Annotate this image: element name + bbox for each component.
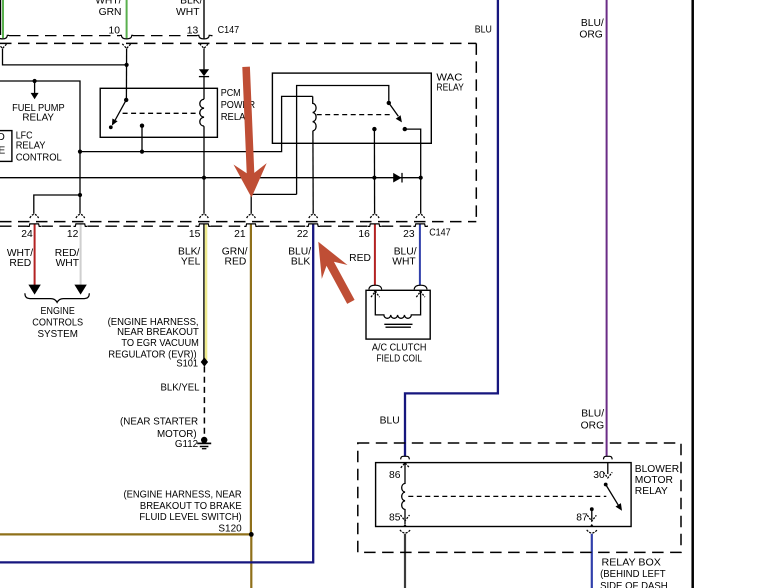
splice S120 node: [249, 532, 254, 537]
svg-text:BLU/: BLU/: [581, 18, 604, 29]
blower motor relay dashed boundary box: [358, 443, 681, 552]
connector arch pin 24: [30, 214, 39, 218]
wire black to pin 12: [79, 195, 81, 214]
svg-text:S101: S101: [176, 359, 198, 370]
svg-text:10: 10: [109, 26, 121, 37]
WAC relay switch closed contact node: [403, 127, 407, 131]
wire black WAC to pin 21: [251, 194, 296, 213]
LFC control box partial: [0, 131, 12, 162]
label FUEL PUMP RELAY: [12, 103, 65, 124]
svg-text:BREAKOUT TO BRAKE: BREAKOUT TO BRAKE: [140, 501, 242, 512]
pin chevron below top connector pin 13: [200, 44, 209, 49]
svg-text:C147: C147: [218, 25, 240, 36]
svg-text:YEL: YEL: [181, 257, 201, 268]
svg-text:12: 12: [67, 229, 79, 240]
wire BLK/WHT pin 13 (dark gray): [203, 0, 205, 38]
wire BLK/YEL pin 15 (black with yellow stripe): [204, 224, 206, 360]
wire BLK/YEL dashed splice S101 to ground G112: [203, 367, 205, 438]
label GRN/RED: [222, 246, 248, 267]
A/C coil connector dome left: [369, 285, 382, 289]
svg-text:RELAY: RELAY: [16, 141, 46, 152]
blower pin 87 cup below box: [587, 530, 597, 533]
connector cup pin 13: [197, 35, 210, 39]
wire BLU long vertical right of PCM box: [405, 0, 498, 456]
blower pin 86 chevron: [401, 463, 409, 468]
A/C coil pin chevron left: [371, 291, 380, 297]
connector cup pin 10: [120, 35, 133, 39]
svg-text:FIELD COIL: FIELD COIL: [376, 353, 422, 364]
svg-text:RED: RED: [225, 257, 247, 268]
WAC relay coil: [313, 96, 316, 130]
svg-text:FLUID LEVEL SWITCH): FLUID LEVEL SWITCH): [139, 512, 241, 523]
svg-text:RELAY: RELAY: [635, 486, 668, 497]
svg-text:(NEAR STARTER: (NEAR STARTER: [120, 417, 198, 428]
engine controls arrow right (RED/WHT): [74, 285, 86, 295]
label PCM POWER RELAY: [221, 88, 255, 123]
svg-text:PCM: PCM: [221, 88, 241, 99]
wire GRN/RED below S120 to bottom edge: [250, 534, 252, 588]
connector arch pin 16: [370, 214, 379, 218]
WAC relay open contact node: [372, 127, 376, 131]
svg-text:(ENGINE HARNESS, NEAR: (ENGINE HARNESS, NEAR: [124, 490, 242, 501]
wire WHT/GRN pin 10 (green): [126, 0, 128, 38]
wire GRN/RED horizontal into S120 from left edge: [0, 533, 251, 535]
connector arch pin 12: [76, 214, 85, 218]
connector cup pin at left edge wire: [0, 35, 9, 39]
connector C147 top row: dashed line with cups: [9, 35, 213, 37]
blower pin 30 chevron pointing down: [603, 463, 612, 478]
label brake fluid switch note: [124, 490, 242, 523]
wire RED pin 16 to A/C clutch field coil: [374, 224, 376, 285]
wire black vertical far right: [691, 0, 694, 588]
connector bump pin 23: [413, 224, 427, 227]
connector C147 bottom row second dashed line with bumps: [0, 225, 428, 227]
fuel pump relay feed wire horizontal: [0, 81, 80, 195]
PCM component boundary dashed right edge: [475, 43, 477, 221]
svg-text:15: 15: [189, 229, 201, 240]
wire black WAC contact to pin 23 via bus2 node: [405, 129, 421, 214]
label A/C CLUTCH FIELD COIL: [372, 342, 427, 364]
blower relay coil: [402, 464, 405, 521]
node junction x80 bus1: [78, 150, 82, 154]
wire RED/WHT pin 12 (light gray): [80, 224, 82, 286]
wire WHT/GRN left edge (green, top left): [1, 0, 3, 38]
WAC relay switch arm with arrowhead: [389, 103, 402, 123]
label BLK/YEL: [178, 246, 201, 267]
PCM power relay switch pivot: [124, 98, 128, 102]
WAC relay box: [272, 73, 431, 143]
connector bump pin 16: [368, 224, 382, 227]
svg-text:E: E: [0, 146, 5, 157]
svg-text:TO EGR VACUUM: TO EGR VACUUM: [121, 338, 199, 349]
svg-text:G112: G112: [175, 439, 198, 450]
connector arch pin 22: [309, 214, 318, 218]
label BLU/WHT pin23: [392, 246, 416, 267]
blower pin 86 cup bracket: [401, 456, 410, 459]
svg-text:(BEHIND LEFT: (BEHIND LEFT: [600, 569, 666, 580]
svg-text:GRN: GRN: [99, 7, 122, 18]
svg-text:BLU: BLU: [380, 415, 400, 426]
svg-text:CONTROL: CONTROL: [16, 153, 62, 164]
wire black from left pin down and right to pin10 node: [3, 48, 127, 65]
svg-text:RED: RED: [9, 258, 31, 269]
blower relay dashed actuator link: [408, 495, 606, 497]
PCM power relay box: [100, 88, 217, 137]
svg-text:RELAY: RELAY: [436, 83, 463, 94]
svg-text:CONTROLS: CONTROLS: [32, 317, 83, 328]
PCM power relay switch arm with arrowhead: [112, 100, 126, 126]
svg-text:BLK/YEL: BLK/YEL: [161, 383, 200, 394]
PCM component boundary dashed bottom edge (connector line): [0, 221, 476, 223]
node bus2 / WAC open contact branch: [372, 176, 376, 180]
WAC relay switch pivot: [387, 101, 391, 105]
label BLU/ORG top right: [579, 18, 604, 40]
node junction pin13 wire / bus2: [202, 176, 206, 180]
blower pin 87 node: [590, 507, 594, 511]
wire BLU/BLK pin 22 (navy) down and left to edge: [0, 224, 313, 562]
wire black PCM coil down through bus to pin 15: [203, 126, 205, 214]
A/C clutch coil core bars: [384, 324, 412, 327]
A/C coil connector dome right: [414, 285, 427, 289]
wire BLU/WHT pin 23 to A/C clutch field coil: [419, 224, 421, 285]
PCM power relay output contact node and stub to bus1: [140, 124, 144, 154]
wire BLU/WHT below blower relay pin 87: [591, 534, 593, 588]
blower switch arm with arrowhead: [606, 485, 622, 511]
svg-text:BLU/: BLU/: [581, 409, 604, 420]
svg-text:RELAY BOX: RELAY BOX: [602, 558, 662, 569]
svg-text:D: D: [0, 132, 5, 143]
label BLK/WHT pin13: [176, 0, 203, 18]
connector bump pin 22: [306, 224, 320, 227]
blower pin 87 stem and chevron: [587, 509, 596, 526]
diode D2 on bus2: [393, 173, 402, 183]
bus2 wire y178 from left edge: [0, 177, 421, 179]
node bus2 end / pin23 branch: [419, 176, 423, 180]
svg-text:ORG: ORG: [581, 421, 604, 432]
svg-text:30: 30: [593, 470, 605, 481]
wire black diode to PCM relay coil and down to pin 15: [203, 77, 205, 100]
connector bump pin 12: [74, 224, 88, 227]
A/C coil pin chevron right: [416, 291, 425, 297]
svg-text:22: 22: [297, 229, 309, 240]
wire GRN/RED pin 21 (dark gold) to S120: [250, 224, 252, 534]
A/C clutch coil winding: [375, 293, 420, 319]
svg-text:S120: S120: [218, 523, 242, 534]
PCM component boundary dashed top edge: [0, 42, 476, 44]
connector arch pin 23: [416, 214, 425, 218]
svg-text:WHT: WHT: [56, 258, 80, 269]
svg-text:MOTOR: MOTOR: [635, 475, 673, 486]
arrow into fuel pump relay: [31, 81, 39, 99]
blower motor relay box: [376, 463, 631, 527]
svg-text:NEAR BREAKOUT: NEAR BREAKOUT: [117, 327, 199, 338]
wire black pin 10 down into PCM power relay switch: [125, 48, 127, 100]
blower pin 85 chevron: [401, 515, 410, 526]
svg-text:BLU: BLU: [475, 24, 492, 35]
node junction fuel pump relay tap: [33, 79, 37, 83]
svg-text:23: 23: [403, 229, 415, 240]
svg-text:WHT: WHT: [176, 7, 200, 18]
WAC relay dashed actuator link: [317, 114, 390, 116]
blower pin 30 cup bracket: [604, 456, 613, 459]
svg-text:ENGINE: ENGINE: [41, 306, 75, 317]
blower pin 85 cup below box: [400, 530, 410, 533]
connector bump pin 21: [244, 224, 258, 227]
svg-text:A/C CLUTCH: A/C CLUTCH: [372, 342, 427, 353]
label LFC RELAY CONTROL: [16, 130, 62, 163]
svg-text:86: 86: [389, 470, 401, 481]
svg-text:BLK: BLK: [291, 257, 311, 268]
WAC relay switch feed wire: [297, 86, 389, 195]
svg-text:SYSTEM: SYSTEM: [38, 329, 78, 340]
connector arch pin 21: [247, 214, 256, 218]
svg-text:87: 87: [576, 512, 588, 523]
svg-text:24: 24: [21, 229, 33, 240]
label BLU/ORG mid: [581, 409, 605, 432]
node junction pin10 wire / left wire: [125, 63, 129, 67]
diode D1 on pin 13 wire: [199, 69, 209, 76]
red arrow 1 pointing down at pin 21 wire: [234, 67, 267, 198]
connector bump pin 15: [197, 224, 211, 227]
svg-text:ORG: ORG: [579, 30, 602, 41]
wire black pin 13 down to diode: [203, 48, 205, 69]
svg-text:16: 16: [358, 229, 370, 240]
svg-text:RED: RED: [349, 253, 371, 264]
label ENGINE CONTROLS SYSTEM: [32, 306, 83, 340]
wire BLU/ORG purple vertical to blower relay pin 30: [606, 0, 608, 456]
svg-text:BLOWER: BLOWER: [635, 464, 679, 475]
PCM power relay dashed actuator link: [123, 112, 201, 114]
svg-text:SIDE OF DASH: SIDE OF DASH: [600, 581, 668, 588]
connector bump pin 24: [27, 224, 41, 227]
svg-text:RELAY: RELAY: [22, 113, 54, 124]
pin chevron below top connector at left wire: [0, 44, 7, 49]
A/C clutch field coil box: [366, 290, 430, 339]
svg-text:85: 85: [389, 512, 401, 523]
svg-text:WHT/: WHT/: [95, 0, 121, 6]
label WHT/GRN pin10: [95, 0, 121, 18]
svg-text:WHT: WHT: [392, 257, 416, 268]
wire black WAC coil down to pin 22: [312, 131, 314, 214]
svg-text:21: 21: [234, 229, 246, 240]
label EGR breakout note: [108, 317, 200, 361]
label WAC RELAY: [436, 73, 463, 94]
wire WHT/RED pin 24 (red): [34, 224, 36, 286]
brace under engine controls arrows: [25, 293, 89, 302]
label RELAY BOX BEHIND LEFT SIDE OF DASH: [600, 558, 668, 588]
red arrow 2 pointing up-left at pin 22 area: [318, 242, 354, 304]
wire black WAC open contact down to pin 16: [373, 129, 375, 214]
svg-text:BLK/: BLK/: [180, 0, 202, 6]
splice S101 diamond: [201, 357, 208, 366]
node junction x80 y195: [78, 193, 82, 197]
label NEAR STARTER MOTOR: [120, 417, 198, 440]
wire BLK below blower relay pin 85: [404, 534, 406, 588]
svg-text:C147: C147: [429, 227, 451, 238]
label WHT/RED: [7, 248, 33, 269]
bus1 wire y151 to WAC coil: [80, 96, 313, 151]
label BLU/BLK: [288, 246, 311, 267]
label BLOWER MOTOR RELAY: [635, 464, 679, 497]
pin chevron below top connector pin 10: [122, 44, 131, 49]
ground G112: [197, 437, 211, 449]
connector arch pin 15: [200, 214, 209, 218]
svg-text:13: 13: [187, 26, 199, 37]
blower switch pivot node: [604, 483, 608, 487]
engine controls arrow left (WHT/RED): [28, 285, 40, 295]
PCM power relay coil: [200, 99, 204, 126]
wire black to pin 24: [34, 195, 80, 214]
PCM power relay switch contact dot: [109, 125, 113, 129]
label RED/WHT: [55, 248, 80, 269]
